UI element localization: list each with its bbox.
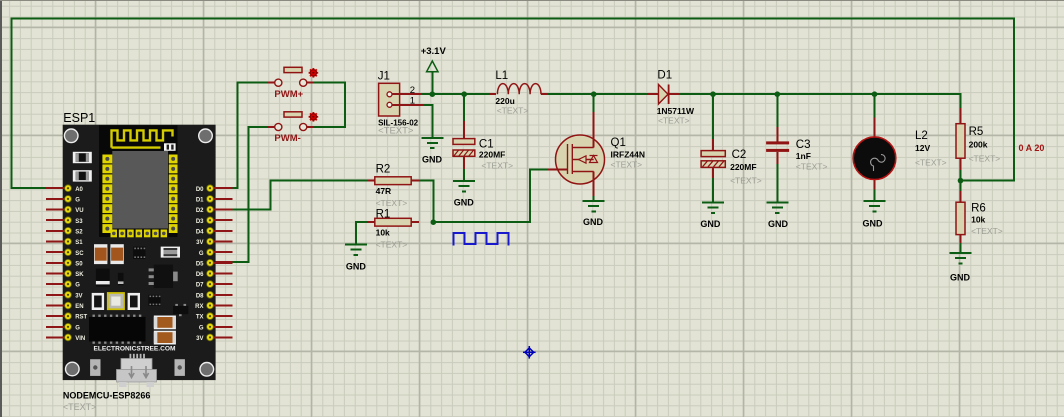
svg-text:G: G bbox=[75, 198, 80, 204]
svg-text:S0: S0 bbox=[75, 261, 83, 267]
antenna trace bbox=[112, 130, 173, 147]
svg-text:D0: D0 bbox=[196, 187, 204, 193]
svg-text:<TEXT>: <TEXT> bbox=[63, 402, 97, 412]
USB connector bbox=[117, 354, 157, 387]
wire: C2 branch bbox=[712, 94, 714, 139]
SMD transistor bbox=[173, 304, 188, 316]
capacitor C3 bbox=[766, 127, 827, 171]
svg-text:VU: VU bbox=[75, 208, 83, 214]
small IC 8pin bbox=[133, 247, 145, 259]
svg-text:IRFZ44N: IRFZ44N bbox=[611, 149, 645, 159]
svg-text:SC: SC bbox=[75, 251, 84, 257]
board pins right column bbox=[196, 185, 233, 193]
wire: D2 to R2 left bbox=[233, 181, 369, 210]
inductor L1 bbox=[489, 70, 547, 116]
wire: D0 to PWM+ left bbox=[233, 83, 267, 189]
svg-text:1: 1 bbox=[410, 95, 415, 106]
svg-text:S3: S3 bbox=[75, 219, 83, 225]
node: L2 junction bbox=[872, 91, 878, 97]
wire: C3 branch bbox=[776, 94, 778, 127]
capacitor C2 bbox=[701, 139, 762, 186]
svg-text:<TEXT>: <TEXT> bbox=[915, 157, 947, 167]
svg-text:R2: R2 bbox=[376, 164, 391, 176]
svg-text:<TEXT>: <TEXT> bbox=[658, 116, 690, 126]
svg-text:C2: C2 bbox=[732, 149, 747, 161]
svg-text:D6: D6 bbox=[196, 272, 204, 278]
svg-text:220MF: 220MF bbox=[479, 150, 505, 160]
board pins left column bbox=[46, 185, 84, 193]
SMD components top-left bbox=[73, 152, 92, 163]
black SMD pair bbox=[96, 269, 110, 287]
svg-text:<TEXT>: <TEXT> bbox=[378, 126, 414, 137]
svg-text:PWM+: PWM+ bbox=[274, 89, 303, 100]
node: +3.1V junction bbox=[430, 91, 436, 97]
mounting holes bbox=[64, 129, 78, 143]
svg-text:G: G bbox=[75, 283, 80, 289]
module ESP1 NodeMCU board bbox=[46, 111, 233, 412]
svg-text:10k: 10k bbox=[376, 228, 390, 238]
svg-text:GND: GND bbox=[422, 155, 443, 165]
svg-text:R5: R5 bbox=[969, 126, 984, 138]
svg-text:G: G bbox=[199, 325, 204, 331]
svg-text:<TEXT>: <TEXT> bbox=[497, 106, 529, 116]
wire: L2 branch bbox=[874, 94, 876, 117]
svg-text:<TEXT>: <TEXT> bbox=[730, 176, 762, 186]
white SMD on ESP-12 bbox=[164, 143, 176, 151]
shield bbox=[112, 151, 168, 229]
wire: J1 pin1 to GND bbox=[423, 105, 432, 138]
svg-text:G: G bbox=[75, 325, 80, 331]
svg-text:220MF: 220MF bbox=[730, 162, 756, 172]
node: C1 junction bbox=[461, 91, 467, 97]
svg-text:D1: D1 bbox=[657, 70, 672, 82]
svg-text:<TEXT>: <TEXT> bbox=[796, 161, 828, 171]
svg-text:EN: EN bbox=[75, 304, 83, 310]
grey SMD resistor bbox=[161, 247, 180, 258]
sheet origin marker bbox=[523, 346, 536, 359]
wire: rail D1 to R5 branch bbox=[680, 94, 961, 108]
svg-text:<TEXT>: <TEXT> bbox=[971, 226, 1003, 236]
svg-text:TX: TX bbox=[196, 315, 204, 321]
svg-text:1N5711W: 1N5711W bbox=[657, 106, 695, 116]
mosfet Q1 bbox=[548, 112, 645, 196]
svg-text:1nF: 1nF bbox=[796, 151, 811, 161]
resistor R5 bbox=[956, 108, 1000, 170]
svg-text:PWM-: PWM- bbox=[274, 133, 300, 144]
svg-text:GND: GND bbox=[863, 219, 884, 229]
svg-text:<TEXT>: <TEXT> bbox=[969, 154, 1001, 164]
orange SMD pair right bbox=[154, 316, 176, 330]
svg-text:D5: D5 bbox=[196, 261, 204, 267]
ground under C2 bbox=[700, 203, 724, 229]
wire: main +3.1V rail bbox=[421, 93, 489, 95]
wire: D0 pin stub bbox=[213, 187, 233, 189]
orange SMD capacitors bbox=[94, 244, 107, 264]
svg-text:+3.1V: +3.1V bbox=[421, 46, 447, 57]
power symbol +3.1V bbox=[421, 46, 447, 94]
ground under L2 bbox=[863, 201, 886, 228]
svg-text:GND: GND bbox=[346, 262, 367, 272]
svg-text:GND: GND bbox=[768, 219, 789, 229]
wire: R6 bottom to GND bbox=[960, 243, 962, 253]
svg-text:D3: D3 bbox=[196, 219, 204, 225]
svg-text:D2: D2 bbox=[196, 208, 204, 214]
ground under C1 bbox=[453, 181, 475, 207]
wire: D2 pin stub bbox=[213, 209, 233, 211]
svg-text:GND: GND bbox=[583, 217, 604, 227]
ground under R6 bbox=[950, 253, 972, 282]
lamp L2 bbox=[853, 118, 946, 190]
svg-text:G: G bbox=[199, 251, 204, 257]
svg-text:RX: RX bbox=[195, 304, 203, 310]
node: Q1 drain junction bbox=[591, 91, 597, 97]
wire: node to R6 top bbox=[960, 181, 962, 191]
wire: C1 branch bbox=[463, 94, 465, 121]
node: divider junction bbox=[958, 178, 964, 184]
svg-text:220u: 220u bbox=[495, 96, 514, 106]
svg-text:SK: SK bbox=[75, 272, 84, 278]
svg-text:ESP1: ESP1 bbox=[63, 111, 95, 125]
svg-text:GND: GND bbox=[454, 198, 475, 208]
svg-text:3V: 3V bbox=[196, 240, 203, 246]
ground under C3 bbox=[766, 203, 788, 229]
wire: L2 to GND bbox=[874, 190, 876, 201]
capacitor C1 bbox=[453, 121, 513, 171]
USB-UART chip bbox=[89, 315, 146, 344]
svg-text:<TEXT>: <TEXT> bbox=[376, 240, 408, 250]
wire: Q1 drain branch bbox=[593, 94, 595, 112]
svg-text:10k: 10k bbox=[971, 215, 985, 225]
svg-text:L1: L1 bbox=[495, 70, 508, 82]
ESP-12 submodule bbox=[99, 125, 178, 237]
svg-text:D4: D4 bbox=[196, 229, 204, 235]
ESP-12 side pads bbox=[102, 155, 112, 164]
wire: R5 bottom to node bbox=[960, 170, 962, 181]
clock waveform marker bbox=[453, 233, 508, 245]
svg-text:C1: C1 bbox=[479, 138, 494, 150]
svg-text:D8: D8 bbox=[196, 293, 204, 299]
svg-text:ELECTRONICSTREE.COM: ELECTRONICSTREE.COM bbox=[93, 346, 176, 353]
ground under R1 bbox=[345, 245, 367, 272]
svg-text:RST: RST bbox=[75, 315, 87, 321]
svg-text:NODEMCU-ESP8266: NODEMCU-ESP8266 bbox=[63, 390, 151, 400]
window edge borders bbox=[0, 0, 2, 417]
USB side clips bbox=[90, 359, 100, 376]
svg-text:J1: J1 bbox=[378, 71, 390, 83]
svg-text:200k: 200k bbox=[969, 139, 988, 149]
wire: Q1 source to GND bbox=[593, 196, 595, 201]
connector J1 bbox=[378, 71, 423, 137]
svg-text:0 A 20: 0 A 20 bbox=[1019, 143, 1045, 153]
diode D1 bbox=[647, 70, 695, 126]
button PWM- bbox=[267, 112, 318, 144]
svg-text:12V: 12V bbox=[915, 143, 930, 153]
wire: C1 to GND bbox=[463, 169, 465, 181]
ESP-12 bottom pads bbox=[111, 230, 118, 238]
SMDs flanking crystal bbox=[92, 293, 104, 310]
wire: R1 left to GND bbox=[356, 222, 367, 244]
svg-text:GND: GND bbox=[700, 219, 721, 229]
svg-text:<TEXT>: <TEXT> bbox=[376, 198, 408, 208]
small IC lower bbox=[148, 295, 160, 306]
wire: PWM- left to D5 bbox=[233, 127, 267, 262]
resistor R1 bbox=[367, 208, 419, 249]
svg-text:VIN: VIN bbox=[75, 336, 85, 342]
svg-text:3V: 3V bbox=[75, 293, 82, 299]
ground under J1 pin1 bbox=[421, 138, 443, 164]
voltage regulator bbox=[149, 265, 178, 288]
node: C3 junction bbox=[775, 91, 781, 97]
svg-text:L2: L2 bbox=[915, 130, 928, 142]
ground under Q1 bbox=[583, 201, 605, 227]
wire: R2 right down to gate node bbox=[419, 181, 433, 223]
svg-text:3V: 3V bbox=[196, 336, 203, 342]
svg-text:GND: GND bbox=[950, 272, 971, 282]
svg-text:R6: R6 bbox=[971, 203, 986, 215]
wire: C2 to GND bbox=[712, 178, 714, 202]
svg-text:<TEXT>: <TEXT> bbox=[481, 161, 513, 171]
wire: gate node to Q1 gate bbox=[433, 169, 548, 222]
svg-text:A0: A0 bbox=[75, 187, 83, 193]
svg-text:D7: D7 bbox=[196, 283, 204, 289]
wire: A0 pin stub bbox=[46, 187, 66, 189]
svg-text:47R: 47R bbox=[376, 186, 392, 196]
svg-text:Q1: Q1 bbox=[611, 137, 626, 149]
svg-text:<TEXT>: <TEXT> bbox=[611, 160, 643, 170]
wire: D5 pin stub bbox=[213, 261, 233, 263]
wire: rail L1 to D1 bbox=[547, 93, 647, 95]
button PWM+ bbox=[267, 67, 318, 100]
svg-text:C3: C3 bbox=[796, 139, 811, 151]
svg-text:R1: R1 bbox=[376, 208, 391, 220]
svg-text:S2: S2 bbox=[75, 229, 83, 235]
svg-text:D1: D1 bbox=[196, 198, 204, 204]
node: gate node junction bbox=[431, 219, 437, 225]
wire: C3 to GND bbox=[776, 164, 778, 202]
crystal bbox=[107, 292, 125, 310]
resistor R6 bbox=[956, 191, 1003, 243]
node: C2 junction bbox=[710, 91, 716, 97]
wire: A0 feedback loop (left vertical, top horizontal, right vertical down to divider) bbox=[12, 18, 1015, 188]
wire: PWM+ right to PWM- right bbox=[313, 83, 345, 127]
svg-text:S1: S1 bbox=[75, 240, 83, 246]
resistor R2 bbox=[368, 164, 419, 209]
